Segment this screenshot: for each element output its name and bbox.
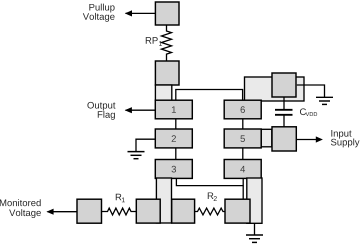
wire: pin 1 to pin 6 top link <box>176 90 243 101</box>
label: RP1 <box>146 37 162 46</box>
pin 4 <box>224 160 261 179</box>
pin 5 <box>224 129 261 148</box>
label: Monitored Voltage <box>0 199 41 218</box>
wire: pad to ground wire <box>297 85 325 97</box>
wire: pin 6 to pin 5 link <box>242 119 244 130</box>
ground: bottom ground <box>246 235 263 242</box>
pin 1 <box>155 100 192 119</box>
label: Output Flag <box>87 102 115 120</box>
pad: CVDD capacitor top pad <box>272 73 296 97</box>
trace: pad to pin 1 trace <box>155 85 171 100</box>
arrow: pullup voltage arrow (left) <box>125 10 132 16</box>
wire: pin 4 to R2 pad wire <box>242 186 244 200</box>
pad: R2 left pad <box>172 199 195 223</box>
pin 3 <box>155 160 192 179</box>
label: Input Supply <box>331 130 360 147</box>
wire: pin 3 to pin 4 bottom link <box>176 178 243 185</box>
resistor R1 <box>102 208 137 215</box>
wire: pin 5 to pin 4 link <box>242 148 244 160</box>
trace: VDD copper pour top right <box>245 77 305 101</box>
pad: input supply pad <box>272 127 296 151</box>
wire: pin 1 to pin 2 link <box>175 119 177 130</box>
wire: pin 2 to ground wire <box>136 139 155 151</box>
wire: input supply wire <box>297 139 317 141</box>
ground: pin 2 ground <box>128 152 145 159</box>
arrow: input supply arrow (right) <box>316 136 323 142</box>
wire: monitored voltage wire <box>48 211 78 213</box>
label: CVDD <box>300 108 317 116</box>
arrow: output flag arrow (left) <box>125 107 132 113</box>
pad: monitored voltage pad <box>77 199 102 223</box>
label: Pullup Voltage <box>83 4 115 22</box>
pin 6 <box>224 100 261 119</box>
wire: ground trace to ground symbol wire <box>254 224 256 235</box>
ground: top right ground <box>316 97 333 104</box>
wire: output flag wire <box>126 109 156 111</box>
wire: pullup voltage wire <box>126 12 156 14</box>
arrow: monitored voltage arrow (left) <box>46 209 53 215</box>
trace: pin 4 ground trace <box>247 178 262 223</box>
trace: pin 5 to input supply trace <box>261 129 272 147</box>
pad: R2 right pad <box>225 199 250 223</box>
wire: pin 2 to pin 3 link <box>175 148 177 160</box>
pad: RP1 bottom pad <box>155 61 179 85</box>
resistor R2 <box>195 208 225 215</box>
pad: pullup voltage pad <box>155 2 179 25</box>
capacitor CVDD <box>275 97 293 127</box>
pad: R1 right pad <box>136 199 160 223</box>
resistor RP1 <box>162 25 172 61</box>
pin 2 <box>155 129 192 148</box>
label: R2 <box>208 192 217 201</box>
label: R1 <box>116 194 125 203</box>
trace: pin 3 sense trace <box>156 178 171 223</box>
